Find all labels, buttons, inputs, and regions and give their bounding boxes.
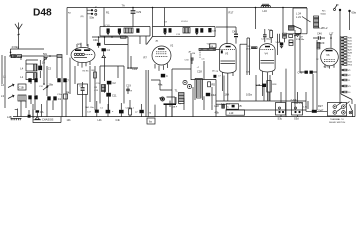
capacitor C16 xyxy=(105,58,117,85)
svg-text:6.: 6. xyxy=(227,106,229,108)
svg-text:C13: C13 xyxy=(176,34,181,36)
svg-text:a2: a2 xyxy=(135,112,138,114)
svg-text:L4b: L4b xyxy=(98,119,103,122)
small box C40 xyxy=(289,43,293,46)
jack contacts xyxy=(158,80,192,101)
ladder rung Y2 xyxy=(341,58,351,61)
svg-text:1B: 1B xyxy=(42,60,45,64)
svg-text:C7: C7 xyxy=(66,78,70,82)
svg-text:L 21: L 21 xyxy=(296,15,302,19)
mains contact xyxy=(349,111,352,114)
resistor R23 hatched xyxy=(283,33,287,38)
IF coil box 1 xyxy=(100,25,150,36)
svg-text:Y2: Y2 xyxy=(348,59,351,61)
label s4 xyxy=(299,36,305,40)
svg-text:L1: L1 xyxy=(3,75,6,78)
coil L4a on aerial wire xyxy=(9,55,62,59)
svg-text:T1: T1 xyxy=(175,89,179,93)
svg-text:V1: V1 xyxy=(348,70,351,72)
capacitor C29 xyxy=(131,7,142,27)
svg-text:a: a xyxy=(112,111,114,113)
bottom component row labels xyxy=(85,106,138,114)
svg-text:C12: C12 xyxy=(39,86,44,88)
ground arrows in coil box xyxy=(107,32,198,34)
dotted drop x200 xyxy=(199,50,201,58)
svg-text:+F: +F xyxy=(32,117,35,119)
wire bus y79.5 xyxy=(191,66,216,80)
arrow in output box xyxy=(302,17,311,23)
svg-text:CHASSIS: CHASSIS xyxy=(42,118,54,122)
svg-text:C33: C33 xyxy=(247,46,252,48)
resistor R17 drop xyxy=(227,8,234,45)
svg-text:C15a: C15a xyxy=(57,94,63,96)
trimmer cap left xyxy=(44,57,48,61)
switch contact S1 xyxy=(334,3,340,10)
ladder rung V5 xyxy=(341,55,351,58)
coil hatched in box xyxy=(102,85,106,92)
svg-text:C4: C4 xyxy=(107,48,111,52)
svg-text:6a: 6a xyxy=(149,121,152,124)
resistor row bottom xyxy=(129,100,132,117)
svg-text:L28 L2: L28 L2 xyxy=(320,26,328,30)
capacitor row bottom 2 xyxy=(106,104,111,117)
wire drop x283 xyxy=(278,7,285,55)
capacitor C5 C6 pair xyxy=(28,78,37,82)
transformer winding box right xyxy=(195,79,203,101)
svg-text:V2: V2 xyxy=(170,44,174,48)
svg-text:Rm: Rm xyxy=(322,11,326,13)
svg-text:50c: 50c xyxy=(43,52,48,56)
capacitor C42 xyxy=(206,93,217,97)
svg-text:HV5: HV5 xyxy=(348,65,353,67)
svg-text:R33: R33 xyxy=(348,47,353,49)
trimmer arrow xyxy=(43,86,48,90)
wire drop x17.5 xyxy=(15,109,18,117)
wire y110 xyxy=(226,109,306,111)
wire drop x191 xyxy=(189,51,192,80)
capacitor C7 C9 pair xyxy=(57,78,69,82)
capacitor C11 xyxy=(106,93,117,98)
svg-text:L7 L9: L7 L9 xyxy=(104,25,110,27)
svg-text:C34: C34 xyxy=(212,30,217,32)
resistor R12 long xyxy=(199,49,220,51)
resistor R27 xyxy=(306,104,327,113)
svg-text:R2: R2 xyxy=(68,12,72,14)
switch S3c xyxy=(276,103,286,121)
wire mesh left column xyxy=(2,55,66,115)
labels C28 xyxy=(197,67,203,73)
wire drop x255 xyxy=(255,7,257,29)
capacitor C45 xyxy=(313,32,325,40)
capacitor C8 pair xyxy=(28,95,37,99)
ticks e-h xyxy=(202,59,206,66)
capacitor C4b xyxy=(93,37,101,48)
svg-text:(R): (R) xyxy=(81,16,84,18)
svg-text:1.5k: 1.5k xyxy=(303,107,308,109)
svg-text:C17: C17 xyxy=(87,112,92,114)
resistor R26 xyxy=(317,43,320,49)
svg-text:V2: V2 xyxy=(348,75,351,77)
svg-text:2: 2 xyxy=(95,5,97,9)
capacitor C43 xyxy=(216,27,238,44)
svg-text:R: R xyxy=(131,91,133,93)
svg-text:C4a.3?k: C4a.3?k xyxy=(294,103,303,105)
svg-text:L16: L16 xyxy=(263,9,268,13)
capacitor C8 box left xyxy=(78,82,88,117)
svg-text:S3c: S3c xyxy=(278,116,283,120)
thermal delay switch xyxy=(328,102,353,125)
resistor value box xyxy=(210,44,217,48)
capacitor row bottom 1 xyxy=(95,101,99,117)
wire grid row xyxy=(92,36,128,45)
tube V6 xyxy=(316,48,338,68)
svg-text:17d: 17d xyxy=(148,112,152,114)
svg-text:C46: C46 xyxy=(317,32,322,36)
staircase wire xyxy=(151,80,175,107)
ladder rung HV5 xyxy=(341,64,353,67)
svg-text:C15: C15 xyxy=(94,90,99,92)
svg-text:10: 10 xyxy=(348,92,351,94)
svg-text:14b: 14b xyxy=(67,119,72,122)
svg-text:D48: D48 xyxy=(33,8,52,19)
capacitor C6 on bus xyxy=(28,110,31,118)
svg-text:R27: R27 xyxy=(318,104,323,108)
capacitor 6kp trimmer xyxy=(10,45,44,56)
ladder rung R34 xyxy=(341,61,353,64)
svg-text:R17: R17 xyxy=(229,11,234,15)
battery terminal 1 xyxy=(339,9,341,104)
terminal ladder xyxy=(341,36,352,104)
ladder rung R31 xyxy=(341,40,353,43)
svg-text:C: C xyxy=(166,74,168,78)
svg-text:L17: L17 xyxy=(329,32,334,36)
resistor R1 xyxy=(104,8,110,28)
svg-text:R34: R34 xyxy=(348,62,353,64)
capacitor C48 xyxy=(295,30,317,110)
ladder rung R32 xyxy=(341,43,353,46)
switch wiper a-L2 xyxy=(1,83,14,88)
switch S3d xyxy=(292,103,303,121)
svg-text:C3: C3 xyxy=(48,66,52,70)
wire y34 right xyxy=(287,26,307,34)
tube V4 xyxy=(260,44,276,76)
svg-text:C28: C28 xyxy=(197,69,202,73)
ladder rung V1 xyxy=(341,69,351,72)
box small right xyxy=(57,55,62,58)
capacitor with ground right of V4 xyxy=(277,41,283,48)
svg-text:A20: A20 xyxy=(348,49,353,52)
svg-text:7A: 7A xyxy=(122,3,125,7)
svg-text:R8: R8 xyxy=(94,87,98,89)
svg-text:L 24: L 24 xyxy=(296,12,302,16)
svg-text:50a: 50a xyxy=(90,16,95,20)
ladder rung 10 xyxy=(341,91,351,94)
choke L16 xyxy=(261,4,271,13)
svg-text:C29: C29 xyxy=(136,10,141,14)
svg-text:R7: R7 xyxy=(144,56,148,60)
svg-text:V5: V5 xyxy=(348,56,351,58)
svg-text:2. (+16v): 2. (+16v) xyxy=(221,103,230,105)
svg-text:C43: C43 xyxy=(232,30,237,34)
capacitor C1 xyxy=(38,60,51,70)
svg-text:9a 9b: 9a 9b xyxy=(324,66,330,68)
ladder rung V2 xyxy=(341,74,351,77)
wire C46 drop xyxy=(256,85,269,101)
wire drops left-mid xyxy=(5,58,90,117)
svg-text:R30: R30 xyxy=(348,38,353,40)
svg-text:C1: C1 xyxy=(100,107,104,109)
box L13 xyxy=(215,110,245,115)
svg-text:L9 L10: L9 L10 xyxy=(181,21,188,23)
svg-text:A4: A4 xyxy=(156,39,159,42)
capacitor C4A xyxy=(33,104,44,117)
box 6a below bus xyxy=(147,118,155,124)
battery terminal 2 with label xyxy=(348,10,356,30)
small box L xyxy=(289,40,293,42)
svg-text:L22: L22 xyxy=(215,104,220,108)
svg-text:C34: C34 xyxy=(185,60,190,62)
svg-text:470k: 470k xyxy=(246,49,251,51)
wire grid drop xyxy=(86,8,88,47)
svg-text:Y2 b: Y2 b xyxy=(207,43,212,45)
wire drop x164 xyxy=(164,8,166,27)
resistor R25 xyxy=(268,29,273,43)
ladder rung A20 xyxy=(341,49,353,52)
transformer T1 xyxy=(164,89,185,117)
svg-text:R1: R1 xyxy=(106,11,110,15)
svg-text:1A.1 20a: 1A.1 20a xyxy=(85,106,95,109)
capacitor 2B xyxy=(212,70,216,77)
svg-text:C19: C19 xyxy=(126,84,131,88)
chassis box xyxy=(33,110,61,123)
capacitor C19 xyxy=(126,84,133,94)
bottom boxes L22 row xyxy=(215,104,243,109)
tube V3 xyxy=(220,43,237,77)
svg-text:V4: V4 xyxy=(265,51,269,55)
svg-text:L4: L4 xyxy=(20,66,23,70)
coil L4 xyxy=(20,64,37,71)
chassis bus bottom xyxy=(13,116,355,118)
capacitor C44 xyxy=(261,29,272,42)
svg-text:C9: C9 xyxy=(164,22,168,24)
svg-text:A1: A1 xyxy=(336,3,339,6)
capacitor C17 pair xyxy=(47,96,61,100)
svg-text:60a: 60a xyxy=(352,10,357,14)
labels between V3 V4 xyxy=(246,46,257,51)
svg-text:THERMAL ?4: THERMAL ?4 xyxy=(330,118,344,121)
svg-text:43b: 43b xyxy=(215,111,220,115)
svg-text:V3: V3 xyxy=(348,86,351,88)
svg-text:C4b: C4b xyxy=(116,119,121,122)
capacitor C4a with ground xyxy=(102,48,111,58)
svg-text:1047: 1047 xyxy=(318,108,324,112)
svg-text:49a: 49a xyxy=(158,82,163,86)
capacitor C34 mid xyxy=(185,58,194,64)
svg-text:C1: C1 xyxy=(58,97,62,101)
svg-text:50kΩ: 50kΩ xyxy=(321,14,327,16)
svg-text:S3d: S3d xyxy=(294,116,299,120)
wire drops under box1 xyxy=(127,36,146,69)
output transformer box xyxy=(293,8,307,26)
resistor R8 labels vertical xyxy=(94,87,99,92)
svg-text:L13: L13 xyxy=(229,111,234,115)
wire left box edge xyxy=(66,8,68,56)
wire x308 xyxy=(307,101,309,109)
tube V1 xyxy=(71,42,95,68)
svg-text:R28: R28 xyxy=(272,84,277,86)
wires right bottom xyxy=(281,92,355,117)
label C4a 32k xyxy=(294,103,308,109)
svg-text:e-h: e-h xyxy=(202,59,206,61)
chassis ground symbol xyxy=(32,117,54,122)
svg-text:C1B: C1B xyxy=(19,86,24,90)
drop x212 xyxy=(211,87,213,104)
IF coil box 2 xyxy=(153,21,217,36)
node 18a xyxy=(46,82,53,87)
svg-text:C4b: C4b xyxy=(93,38,98,42)
svg-text:C35: C35 xyxy=(246,71,251,73)
svg-text:105a: 105a xyxy=(246,92,252,96)
wire top bus xyxy=(67,7,307,9)
wires between V3 V4 xyxy=(240,38,250,75)
svg-text:18a: 18a xyxy=(49,82,54,86)
svg-text:RD: RD xyxy=(211,82,215,86)
resistor chain R8 xyxy=(92,66,101,110)
coil L1 xyxy=(20,73,37,80)
svg-text:12: 12 xyxy=(316,59,319,61)
transformer windings xyxy=(289,16,319,30)
svg-text:R31: R31 xyxy=(348,41,353,43)
coil box lower xyxy=(18,95,26,101)
resistor R29 xyxy=(320,34,332,49)
svg-text:C?: C? xyxy=(218,75,222,77)
capacitor row bottom 3 xyxy=(119,103,124,117)
capacitor C46 mid xyxy=(256,83,267,87)
resistor R28 xyxy=(267,81,277,92)
wires mid column xyxy=(105,56,139,110)
svg-text:16A: 16A xyxy=(225,92,230,96)
svg-text:L2: L2 xyxy=(1,83,4,87)
svg-text:V6: V6 xyxy=(326,53,330,57)
ladder rung V3 xyxy=(341,85,351,88)
resistor R4 xyxy=(64,90,70,99)
wire x152 drop xyxy=(147,37,153,45)
T1 bottom wires xyxy=(146,70,212,117)
svg-text:C11: C11 xyxy=(112,93,117,97)
svg-text:V1: V1 xyxy=(78,42,82,46)
svg-text:L1: L1 xyxy=(20,75,23,79)
node 2 / sockets 50a xyxy=(87,5,97,20)
ladder rung R33 xyxy=(341,46,353,49)
capacitor row bottom 4 xyxy=(139,104,143,117)
svg-text:L3: L3 xyxy=(1,94,4,98)
svg-text:4=6kp: 4=6kp xyxy=(12,45,20,49)
svg-text:R29: R29 xyxy=(320,41,325,45)
svg-text:23: 23 xyxy=(216,71,219,73)
svg-text:(A): (A) xyxy=(239,105,242,108)
resistor 50k label xyxy=(321,11,327,16)
drop x216 xyxy=(215,80,217,117)
bottom mid bus y101 xyxy=(216,44,288,116)
box C1B xyxy=(18,84,26,90)
switch wiper a-L3 xyxy=(1,94,14,99)
svg-text:V3: V3 xyxy=(225,51,229,55)
svg-text:R5 R6: R5 R6 xyxy=(83,71,90,73)
box frame mid xyxy=(172,69,191,104)
chassis hatch xyxy=(11,118,22,120)
svg-text:C44 10kpF: C44 10kpF xyxy=(261,39,272,41)
wire y104 xyxy=(216,103,226,105)
svg-text:11: 11 xyxy=(348,80,351,82)
resistor R2D xyxy=(208,82,216,87)
node labels left of V3 xyxy=(216,71,222,77)
svg-text:C2: C2 xyxy=(112,81,116,85)
wire V4 pins down xyxy=(263,75,268,101)
shield box mid xyxy=(100,66,124,104)
wire drop x152 xyxy=(152,7,154,27)
antenna xyxy=(15,23,22,50)
svg-text:DELAY SWITCH: DELAY SWITCH xyxy=(329,121,346,124)
svg-text:1M: 1M xyxy=(192,53,195,55)
capacitor C under V2 xyxy=(161,74,168,78)
ladder rung 11 xyxy=(341,79,351,82)
wire V3 pins down xyxy=(223,76,228,101)
svg-text:R2B: R2B xyxy=(348,53,353,55)
small box 6 xyxy=(289,34,293,37)
ladder rung R30 xyxy=(341,37,353,40)
ladder rung R2B xyxy=(341,52,353,55)
svg-text:R32: R32 xyxy=(348,44,353,46)
tube V2 xyxy=(144,44,174,71)
svg-text:4B F: 4B F xyxy=(173,107,178,109)
node 50c xyxy=(43,52,51,57)
speaker xyxy=(294,26,301,41)
svg-text:+7: +7 xyxy=(197,67,200,69)
